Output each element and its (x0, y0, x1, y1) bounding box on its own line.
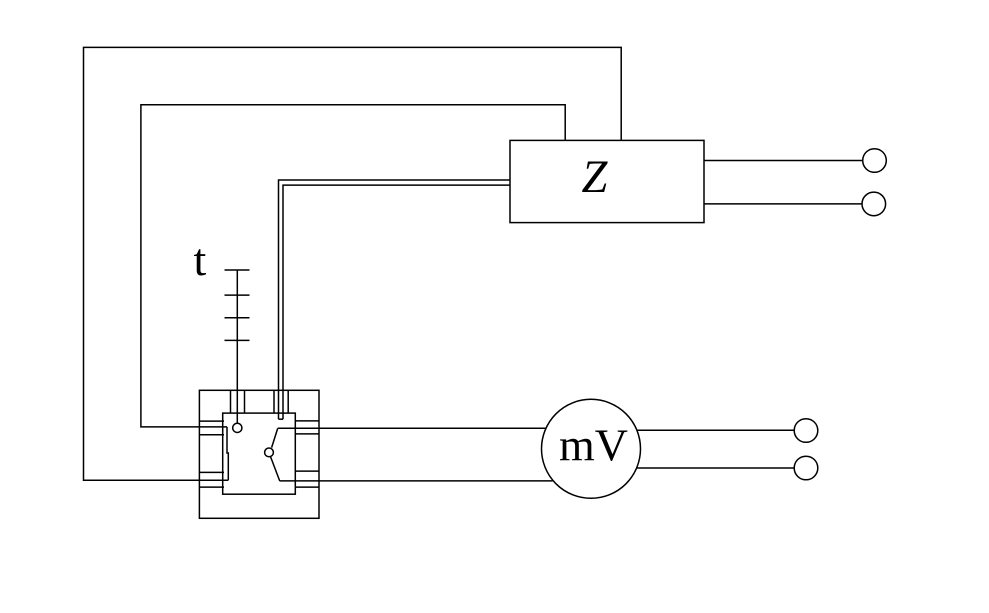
svg-text:t: t (194, 234, 207, 285)
wire: switch to mV meter upper (278, 427, 546, 429)
wire: mV to upper right terminal (637, 429, 794, 431)
contact: thermocouple terminal circle (233, 423, 242, 432)
switch box inner (223, 413, 296, 494)
wire: inner loop (switch box left, up over top, down into Z box top) (141, 105, 565, 427)
bushing: right wall lower (295, 471, 319, 487)
wire: mV to lower right terminal (637, 467, 794, 469)
wire: compensation lead end bar (279, 418, 284, 420)
wire: outer loop (switch box left, up over top, down into Z box top) (84, 47, 622, 480)
terminal: lower right of Z (862, 192, 886, 216)
wire: Z box to lower right terminal (704, 203, 862, 205)
terminal: lower right of mV (794, 456, 818, 480)
bushing: right wall upper (295, 421, 319, 434)
thermometer tick 3 (225, 317, 250, 319)
thermocouple stem wire (236, 270, 238, 423)
terminal: upper right of mV (794, 419, 818, 443)
svg-text:mV: mV (559, 420, 628, 471)
switch arm upper segment (272, 428, 278, 447)
wire: switch to mV meter lower (280, 480, 553, 482)
wire: Z box to upper right terminal (704, 160, 863, 162)
wire: bus joining the two incoming loop wires inside switch box (227, 427, 228, 480)
millivoltmeter mV (542, 399, 641, 498)
thermometer tick 2 (225, 294, 250, 296)
svg-text:Z: Z (582, 152, 609, 203)
switch arm lower segment (271, 457, 280, 482)
bushing: left wall lower (199, 472, 224, 487)
terminal: upper right of Z (863, 149, 887, 173)
switch pivot circle (265, 448, 274, 457)
bushing: top wall around compensation leads (274, 390, 288, 413)
thermometer tick 1 (225, 269, 250, 271)
wire: compensation lead upper (Z left edge to switch box) (279, 180, 511, 419)
thermometer tick 4 (225, 339, 250, 341)
bushing: left wall upper (199, 421, 224, 435)
compensation box Z (510, 140, 704, 222)
bushing: top wall around thermocouple wire (231, 390, 245, 413)
wire: compensation lead lower (Z left edge to switch box) (283, 185, 510, 419)
switch box outer (199, 390, 319, 518)
